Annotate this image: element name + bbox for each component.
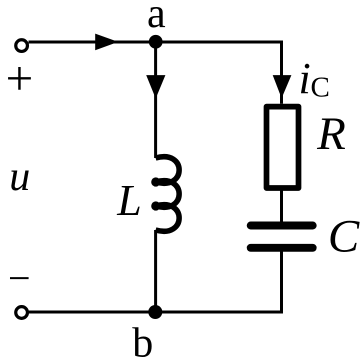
svg-text:a: a (147, 0, 166, 37)
svg-text:R: R (316, 108, 346, 160)
svg-text:C: C (328, 211, 360, 263)
svg-text:C: C (311, 72, 330, 104)
svg-text:u: u (9, 154, 30, 200)
svg-text:−: − (8, 256, 31, 301)
svg-text:+: + (6, 50, 34, 105)
svg-text:b: b (132, 321, 153, 362)
svg-text:L: L (116, 176, 141, 225)
svg-text:i: i (299, 54, 311, 103)
